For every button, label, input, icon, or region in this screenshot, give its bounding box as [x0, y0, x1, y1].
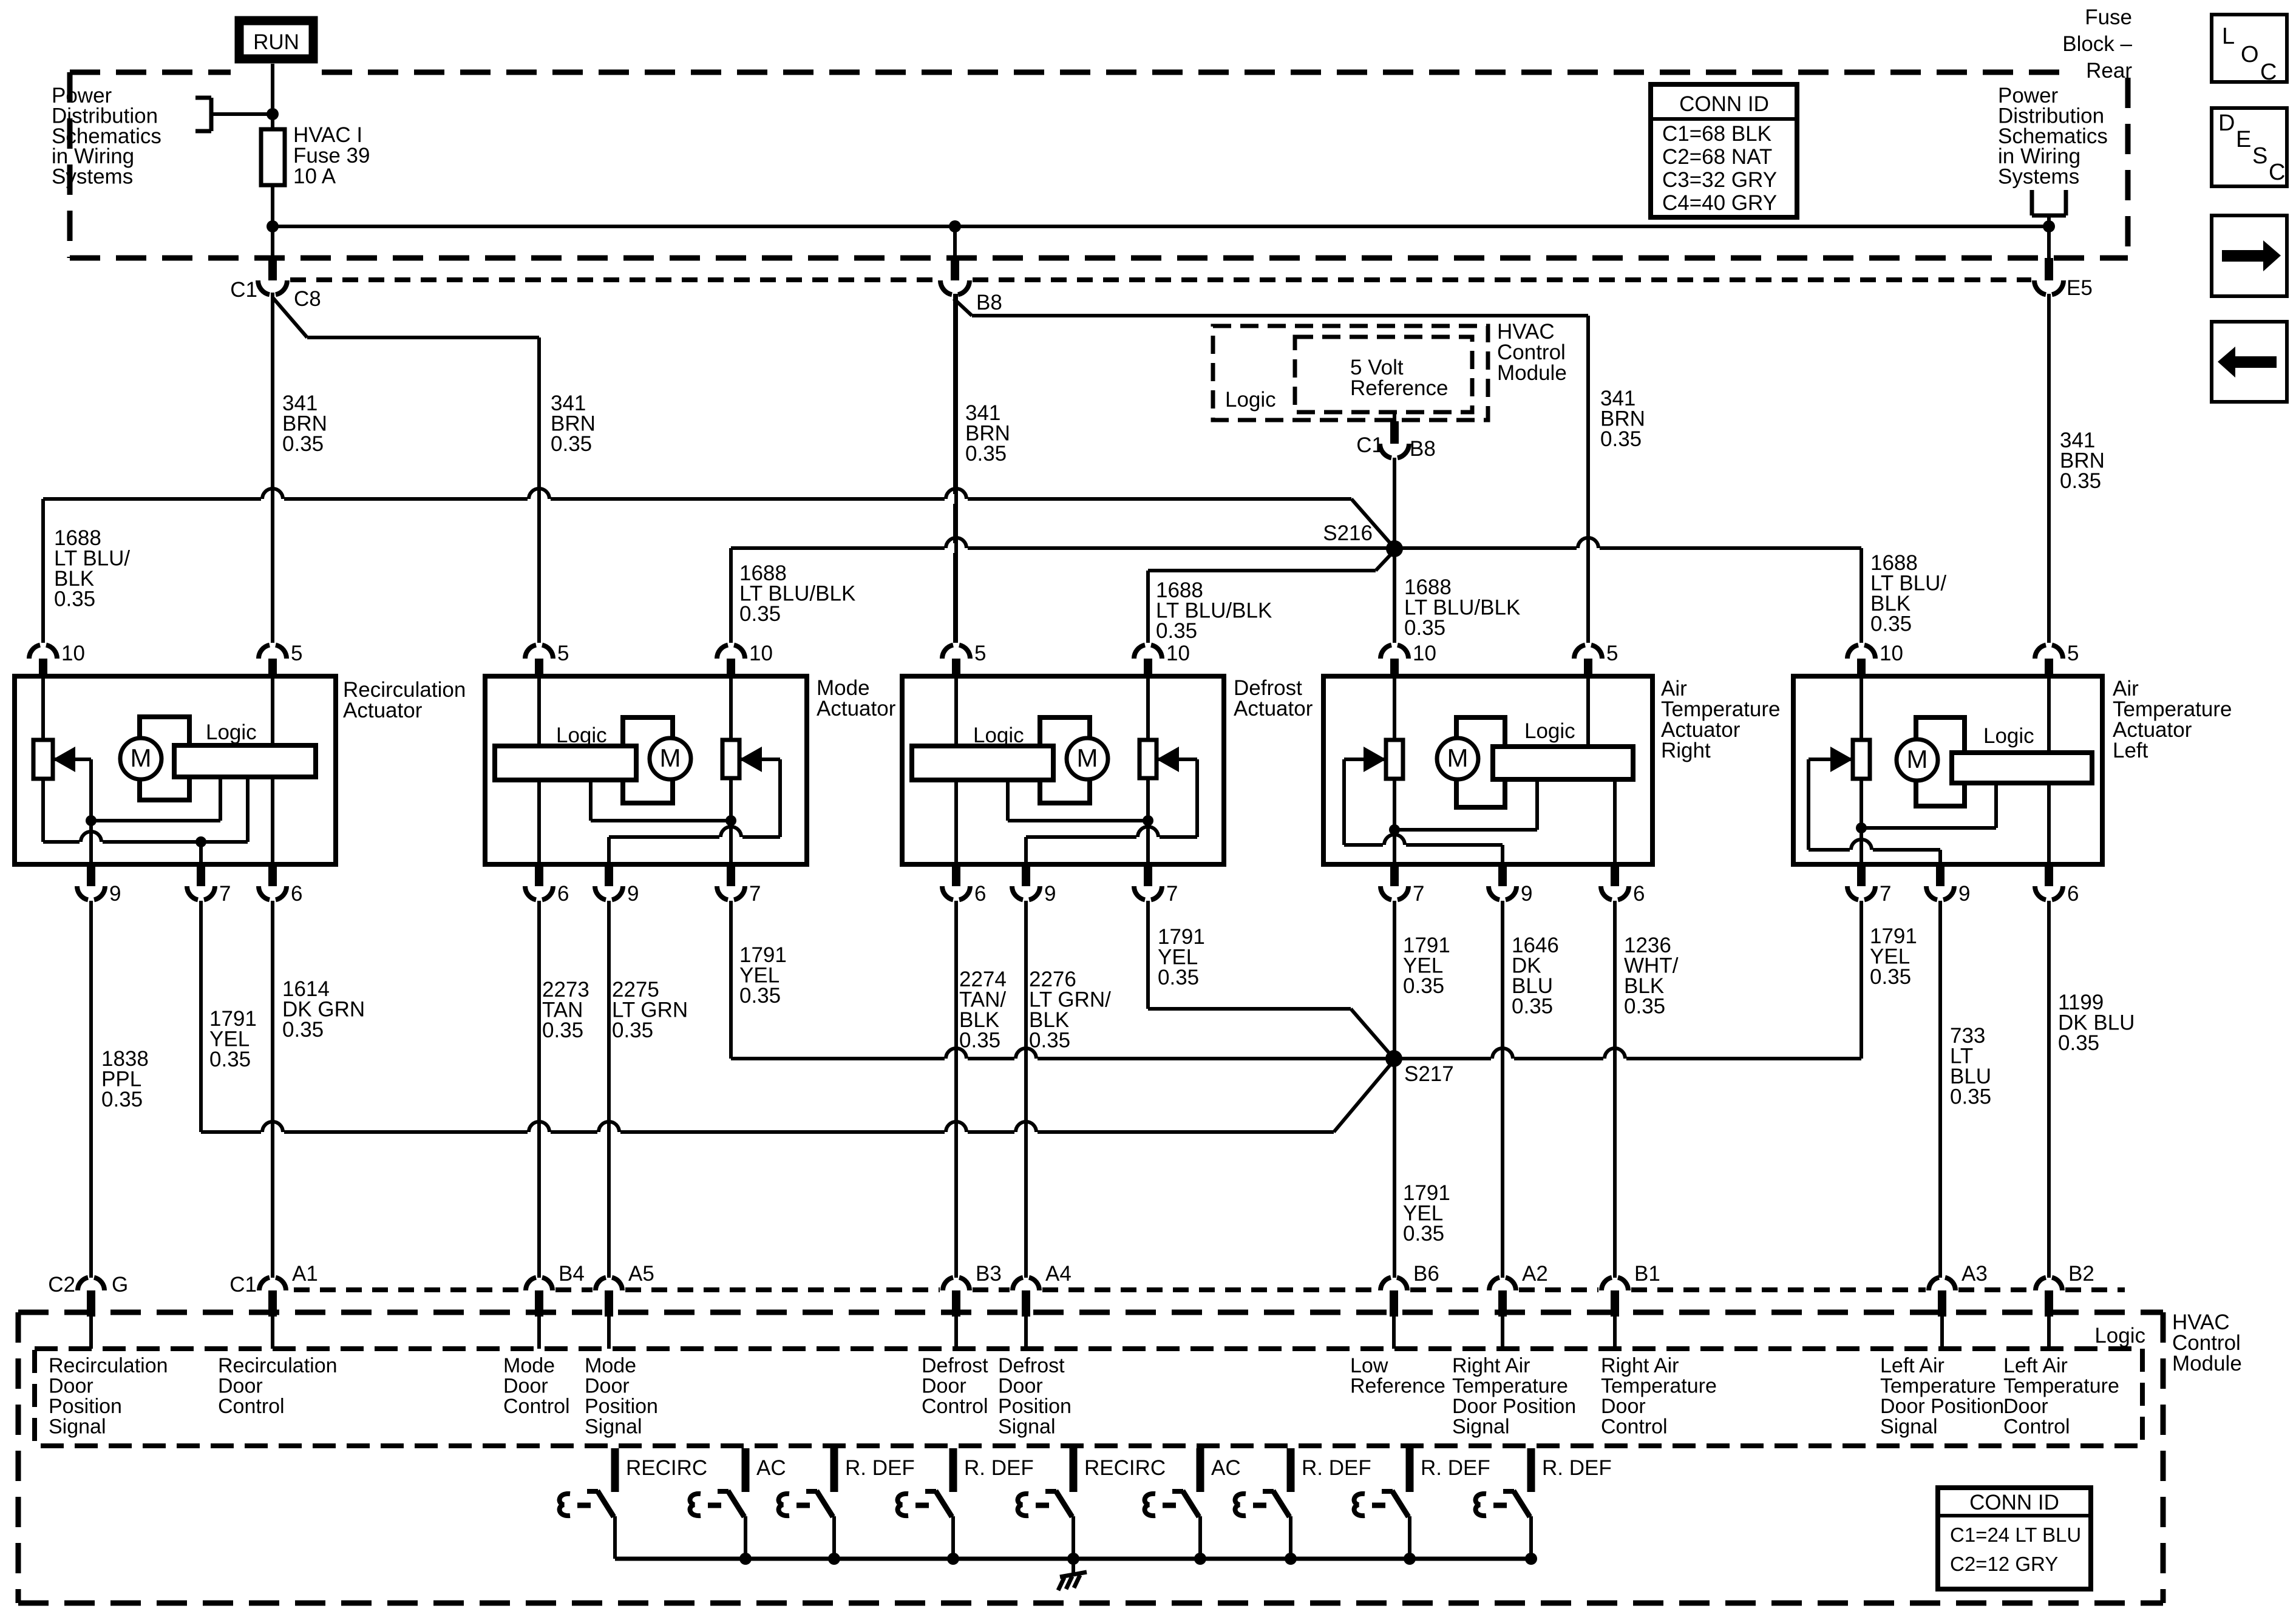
svg-text:C: C	[2260, 59, 2277, 85]
svg-text:0.35: 0.35	[1156, 619, 1197, 643]
svg-text:0.35: 0.35	[282, 432, 324, 456]
svg-text:7: 7	[749, 882, 761, 906]
svg-text:Recirculation: Recirculation	[49, 1354, 168, 1377]
svg-text:0.35: 0.35	[1512, 995, 1553, 1019]
svg-text:10: 10	[1166, 642, 1190, 665]
svg-text:Door: Door	[2003, 1395, 2048, 1418]
svg-text:E5: E5	[2067, 276, 2093, 300]
svg-text:5: 5	[1606, 642, 1618, 665]
svg-text:C1=68 BLK: C1=68 BLK	[1662, 122, 1771, 146]
svg-text:10: 10	[1413, 642, 1436, 665]
svg-text:B4: B4	[559, 1262, 585, 1286]
svg-text:Control: Control	[503, 1395, 570, 1418]
svg-text:D: D	[2218, 110, 2235, 136]
svg-text:Mode: Mode	[503, 1354, 555, 1377]
svg-text:Control: Control	[2003, 1415, 2070, 1439]
svg-text:C3=32 GRY: C3=32 GRY	[1662, 168, 1777, 192]
svg-text:0.35: 0.35	[1403, 1222, 1444, 1246]
svg-text:7: 7	[1413, 882, 1424, 906]
svg-text:Position: Position	[998, 1395, 1072, 1418]
svg-text:Module: Module	[2172, 1352, 2242, 1375]
svg-text:Right Air: Right Air	[1452, 1354, 1530, 1377]
svg-text:O: O	[2241, 42, 2259, 67]
svg-text:Temperature: Temperature	[1601, 1375, 1717, 1398]
svg-text:CONN ID: CONN ID	[1969, 1491, 2059, 1514]
svg-text:Low: Low	[1350, 1354, 1388, 1377]
svg-text:0.35: 0.35	[282, 1018, 324, 1042]
svg-text:6: 6	[974, 882, 986, 906]
svg-text:0.35: 0.35	[1600, 427, 1642, 451]
svg-text:Logic: Logic	[973, 724, 1024, 747]
svg-text:C1: C1	[1356, 433, 1384, 457]
svg-text:S217: S217	[1404, 1062, 1454, 1086]
svg-text:10: 10	[61, 642, 85, 665]
svg-text:Signal: Signal	[585, 1415, 642, 1439]
svg-text:0.35: 0.35	[1029, 1029, 1070, 1053]
svg-text:M: M	[1447, 744, 1469, 772]
svg-text:A4: A4	[1045, 1262, 1072, 1286]
svg-text:Right Air: Right Air	[1601, 1354, 1679, 1377]
svg-text:Logic: Logic	[1524, 719, 1575, 743]
svg-text:Door: Door	[503, 1375, 548, 1398]
svg-text:B8: B8	[976, 291, 1002, 314]
svg-text:Logic: Logic	[2094, 1324, 2145, 1347]
svg-text:Temperature: Temperature	[1452, 1375, 1568, 1398]
svg-text:Left Air: Left Air	[1880, 1354, 1944, 1377]
svg-text:Door: Door	[49, 1375, 93, 1398]
svg-text:Systems: Systems	[1998, 165, 2079, 189]
svg-text:C1: C1	[229, 1273, 257, 1297]
svg-text:Left Air: Left Air	[2003, 1354, 2068, 1377]
svg-text:10 A: 10 A	[293, 164, 336, 188]
svg-text:RECIRC: RECIRC	[1084, 1456, 1166, 1480]
svg-text:RUN: RUN	[253, 30, 299, 54]
svg-text:0.35: 0.35	[739, 984, 781, 1008]
svg-text:E: E	[2236, 127, 2251, 152]
svg-text:Mode: Mode	[585, 1354, 636, 1377]
svg-text:M: M	[1077, 744, 1098, 772]
svg-text:L: L	[2222, 24, 2235, 49]
svg-text:Door Position: Door Position	[1452, 1395, 1576, 1418]
svg-text:9: 9	[1521, 882, 1532, 906]
svg-text:R. DEF: R. DEF	[1421, 1456, 1490, 1480]
svg-text:Signal: Signal	[1880, 1415, 1938, 1439]
svg-text:Defrost: Defrost	[998, 1354, 1065, 1377]
svg-text:0.35: 0.35	[2060, 469, 2101, 493]
svg-text:Right: Right	[1661, 739, 1711, 762]
svg-text:Position: Position	[585, 1395, 658, 1418]
svg-text:Reference: Reference	[1350, 1375, 1445, 1398]
svg-text:C1=24 LT BLU: C1=24 LT BLU	[1950, 1524, 2081, 1546]
svg-text:7: 7	[1166, 882, 1178, 906]
svg-text:S216: S216	[1323, 521, 1373, 545]
svg-text:0.35: 0.35	[1870, 612, 1912, 636]
svg-text:9: 9	[1958, 882, 1970, 906]
svg-text:Systems: Systems	[52, 165, 133, 189]
svg-text:0.35: 0.35	[959, 1029, 1000, 1053]
svg-text:0.35: 0.35	[551, 432, 592, 456]
svg-text:0.35: 0.35	[965, 442, 1007, 466]
svg-text:Position: Position	[49, 1395, 122, 1418]
svg-text:7: 7	[1880, 882, 1891, 906]
svg-text:Door: Door	[998, 1375, 1043, 1398]
svg-text:R. DEF: R. DEF	[964, 1456, 1034, 1480]
svg-text:Defrost: Defrost	[922, 1354, 988, 1377]
svg-text:Rear: Rear	[2086, 59, 2132, 83]
svg-text:0.35: 0.35	[2058, 1031, 2099, 1055]
svg-text:0.35: 0.35	[209, 1048, 251, 1071]
svg-text:5: 5	[291, 642, 302, 665]
svg-text:Door Position: Door Position	[1880, 1395, 2004, 1418]
svg-text:0.35: 0.35	[1870, 965, 1911, 989]
svg-text:Temperature: Temperature	[1880, 1375, 1996, 1398]
svg-text:M: M	[1907, 745, 1928, 773]
svg-text:B2: B2	[2068, 1262, 2094, 1286]
svg-text:6: 6	[1633, 882, 1645, 906]
svg-text:9: 9	[627, 882, 639, 906]
svg-text:R. DEF: R. DEF	[1302, 1456, 1371, 1480]
svg-text:Signal: Signal	[998, 1415, 1056, 1439]
svg-text:Control: Control	[922, 1395, 988, 1418]
svg-text:C: C	[2269, 160, 2285, 185]
svg-text:C2=68 NAT: C2=68 NAT	[1662, 145, 1772, 169]
svg-text:Left: Left	[2113, 739, 2148, 762]
svg-text:Fuse: Fuse	[2085, 5, 2132, 29]
svg-text:Actuator: Actuator	[817, 697, 896, 720]
svg-text:AC: AC	[756, 1456, 786, 1480]
svg-text:Module: Module	[1497, 361, 1567, 385]
svg-text:C1: C1	[230, 278, 257, 302]
svg-text:G: G	[112, 1273, 128, 1297]
svg-text:B6: B6	[1413, 1262, 1439, 1286]
svg-text:5: 5	[2067, 642, 2079, 665]
svg-text:6: 6	[557, 882, 569, 906]
svg-text:Signal: Signal	[1452, 1415, 1510, 1439]
svg-text:7: 7	[219, 882, 231, 906]
svg-text:M: M	[131, 744, 152, 772]
svg-text:10: 10	[749, 642, 773, 665]
svg-text:Signal: Signal	[49, 1415, 106, 1439]
svg-text:A1: A1	[292, 1262, 318, 1286]
svg-text:0.35: 0.35	[1403, 974, 1444, 998]
svg-text:Actuator: Actuator	[343, 699, 423, 722]
svg-text:R. DEF: R. DEF	[845, 1456, 915, 1480]
svg-text:Logic: Logic	[206, 720, 257, 744]
svg-text:C2: C2	[48, 1273, 75, 1297]
svg-text:Door: Door	[1601, 1395, 1646, 1418]
svg-text:10: 10	[1880, 642, 1903, 665]
svg-text:Actuator: Actuator	[1234, 697, 1313, 720]
svg-text:0.35: 0.35	[54, 588, 95, 611]
svg-text:C8: C8	[294, 287, 321, 311]
svg-text:R. DEF: R. DEF	[1542, 1456, 1612, 1480]
svg-text:CONN ID: CONN ID	[1679, 92, 1769, 116]
svg-text:Logic: Logic	[556, 724, 607, 747]
svg-text:Door: Door	[218, 1375, 263, 1398]
svg-text:C2=12 GRY: C2=12 GRY	[1950, 1553, 2058, 1575]
svg-text:M: M	[660, 744, 681, 772]
svg-text:0.35: 0.35	[1404, 616, 1445, 640]
svg-text:B3: B3	[976, 1262, 1002, 1286]
svg-text:9: 9	[109, 882, 121, 906]
svg-text:A2: A2	[1522, 1262, 1548, 1286]
svg-text:Block –: Block –	[2062, 32, 2132, 56]
svg-text:Door: Door	[585, 1375, 630, 1398]
svg-text:Door: Door	[922, 1375, 966, 1398]
svg-text:5: 5	[557, 642, 569, 665]
svg-text:0.35: 0.35	[739, 602, 781, 626]
svg-text:C4=40 GRY: C4=40 GRY	[1662, 191, 1777, 215]
svg-text:0.35: 0.35	[542, 1019, 583, 1042]
svg-text:Reference: Reference	[1350, 376, 1448, 400]
svg-text:AC: AC	[1211, 1456, 1241, 1480]
svg-text:6: 6	[291, 882, 302, 906]
svg-text:Logic: Logic	[1983, 724, 2034, 748]
svg-text:9: 9	[1044, 882, 1056, 906]
svg-text:0.35: 0.35	[1950, 1085, 1991, 1109]
svg-text:A5: A5	[628, 1262, 654, 1286]
svg-text:Control: Control	[1601, 1415, 1668, 1439]
svg-text:Temperature: Temperature	[2003, 1375, 2119, 1398]
svg-text:6: 6	[2067, 882, 2079, 906]
svg-text:Logic: Logic	[1225, 388, 1276, 412]
svg-text:RECIRC: RECIRC	[626, 1456, 707, 1480]
svg-text:5: 5	[974, 642, 986, 665]
svg-text:A3: A3	[1961, 1262, 1988, 1286]
svg-text:0.35: 0.35	[1158, 966, 1199, 989]
svg-text:B1: B1	[1634, 1262, 1660, 1286]
svg-text:0.35: 0.35	[612, 1019, 653, 1042]
svg-text:B8: B8	[1410, 437, 1436, 461]
svg-text:Control: Control	[218, 1395, 285, 1418]
svg-text:0.35: 0.35	[1624, 995, 1665, 1019]
svg-text:0.35: 0.35	[101, 1088, 143, 1111]
svg-text:S: S	[2252, 143, 2267, 169]
svg-text:Recirculation: Recirculation	[218, 1354, 338, 1377]
